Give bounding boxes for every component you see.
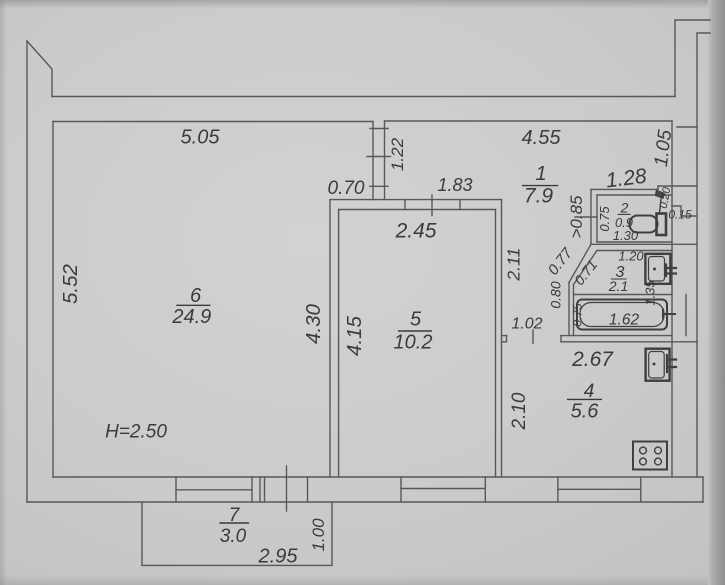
kitchen sink faucet — [667, 355, 676, 372]
window: kitchen mid line — [558, 488, 641, 490]
svg-text:0.70: 0.70 — [328, 178, 365, 199]
svg-text:1.28: 1.28 — [605, 165, 649, 193]
svg-text:4.55: 4.55 — [522, 127, 562, 149]
tick: kitchen door dimension — [532, 330, 534, 344]
wall: kitchen top outer left — [502, 335, 507, 337]
svg-text:7.9: 7.9 — [524, 185, 554, 208]
window: kitchen jamb right — [640, 477, 642, 502]
svg-text:0.75: 0.75 — [597, 206, 612, 232]
door: balcony jamb 3 — [307, 477, 309, 502]
svg-text:2.67: 2.67 — [571, 348, 614, 371]
svg-text:2: 2 — [620, 200, 629, 216]
wall: duct inner vertical — [671, 186, 673, 477]
wall: hallway-kitchen left — [501, 200, 503, 477]
window: kitchen jamb left — [557, 477, 559, 502]
wall: tub area top — [574, 294, 673, 296]
tick: room6 door jamb lower — [370, 185, 388, 187]
window: room6 mid line — [176, 489, 252, 491]
svg-text:0.15: 0.15 — [668, 208, 692, 222]
wall: room3 top outer — [591, 243, 697, 245]
window: room5 mid line — [401, 488, 485, 490]
toilet valve stem — [660, 199, 662, 213]
wall: bottom-right end vertical — [702, 477, 704, 502]
window: room6 right jamb — [251, 477, 253, 502]
bathtub outer — [577, 300, 667, 330]
tick: top-right duct — [677, 126, 697, 128]
wall: corridor right — [671, 121, 673, 186]
tick: room6 door middle — [367, 156, 391, 158]
svg-text:1.22: 1.22 — [388, 137, 407, 171]
toilet valve — [656, 191, 665, 199]
wall: wc left outer — [590, 189, 592, 244]
window: room5 jamb left — [400, 477, 402, 502]
wall: room3 top inner — [597, 250, 672, 252]
room1 bar — [522, 185, 558, 187]
svg-text:24.9: 24.9 — [171, 306, 211, 328]
tick: room5 door dimension — [431, 195, 433, 216]
wall: bottom inner line — [53, 476, 703, 478]
tick: wc dimension left — [575, 216, 597, 218]
room7 bar — [219, 522, 249, 524]
stove burner 3 — [640, 458, 647, 465]
svg-text:5.05: 5.05 — [181, 127, 221, 149]
kitchen sink outer — [646, 349, 670, 381]
svg-text:0.77: 0.77 — [545, 244, 577, 278]
wall: room5 right — [495, 210, 497, 478]
wall: corridor bottom y=199.6 — [330, 199, 502, 201]
toilet cistern — [657, 214, 667, 236]
stove — [633, 442, 667, 470]
dimension and room labels — [105, 127, 692, 568]
stove burner 2 — [655, 447, 662, 454]
sink room3 dot — [653, 268, 656, 271]
svg-text:2.95: 2.95 — [258, 546, 299, 568]
balcony: bottom edge — [142, 564, 332, 566]
sink room3 faucet — [666, 265, 676, 277]
svg-text:4.30: 4.30 — [302, 303, 325, 343]
wall: kitchen top inner right — [561, 341, 697, 343]
tick: balcony dimension — [286, 466, 288, 511]
svg-text:1.30: 1.30 — [613, 228, 639, 243]
wall: room6 right upper right line — [384, 121, 386, 200]
sink room3 inner — [649, 257, 665, 282]
svg-text:0.75: 0.75 — [571, 303, 585, 327]
svg-text:1.62: 1.62 — [609, 312, 640, 329]
wall: wc top inner — [597, 194, 672, 196]
wall: wc left inner — [596, 195, 598, 242]
balcony: left edge — [141, 502, 143, 565]
svg-text:1.83: 1.83 — [437, 175, 472, 195]
svg-text:>0.85: >0.85 — [567, 195, 586, 239]
window: room6 left jamb — [175, 477, 177, 502]
wall: room5 top inner — [339, 209, 496, 211]
svg-text:3.0: 3.0 — [220, 526, 247, 547]
wall: top outer — [52, 96, 675, 98]
wall: top inner line room6 — [53, 121, 373, 123]
wall: hallway right lower b — [573, 285, 575, 336]
kitchen sink dot — [653, 363, 656, 366]
svg-text:5: 5 — [410, 309, 422, 331]
wall: top inner line corridor — [385, 120, 673, 122]
bathtub faucet — [663, 310, 675, 319]
wall: bottom outer — [27, 501, 703, 503]
wc bar — [618, 213, 631, 215]
wall: wc bottom inner — [597, 241, 672, 243]
svg-text:2.1: 2.1 — [608, 278, 628, 294]
svg-text:1.35: 1.35 — [643, 280, 658, 306]
door: room5 jamb right — [459, 200, 461, 210]
room6 bar — [176, 304, 210, 306]
svg-text:2.11: 2.11 — [504, 248, 524, 282]
wall: step x658 — [657, 186, 659, 189]
rotated labels — [59, 128, 676, 551]
svg-text:5.6: 5.6 — [571, 401, 600, 423]
wall: kitchen top outer right — [561, 335, 672, 337]
svg-text:6: 6 — [190, 285, 202, 307]
wall: duct step y206 — [672, 206, 697, 216]
svg-text:4.15: 4.15 — [343, 315, 366, 355]
svg-text:0.20: 0.20 — [658, 186, 674, 210]
wall: kitchen top inner left — [502, 341, 507, 343]
stove burner 4 — [655, 458, 662, 465]
bathtub inner — [580, 303, 664, 327]
door: kitchen jamb left — [506, 336, 508, 342]
room5 bar — [398, 330, 432, 332]
balcony: right edge — [331, 502, 333, 565]
door: balcony jamb 2 — [264, 477, 266, 502]
wall: room6 left inner — [52, 122, 54, 478]
wall: corridor duct y186 — [658, 185, 697, 187]
svg-text:1: 1 — [535, 163, 546, 185]
window: room5 jamb right — [484, 477, 486, 502]
wall: diagonal outer — [569, 244, 591, 282]
svg-text:1.00: 1.00 — [309, 518, 328, 552]
kitchen sink inner — [649, 352, 665, 379]
sink room3 outer — [645, 254, 670, 284]
svg-text:1.20: 1.20 — [618, 249, 644, 264]
wall: room6 right lower — [329, 200, 331, 477]
wall: left outer — [26, 41, 28, 502]
svg-text:5.52: 5.52 — [59, 263, 82, 303]
room4 bar — [567, 398, 602, 400]
svg-text:0.71: 0.71 — [571, 257, 600, 288]
svg-text:2.45: 2.45 — [395, 220, 437, 243]
stove burner 1 — [640, 447, 647, 454]
wall: hallway right lower a — [568, 283, 570, 336]
wall: wc top outer — [591, 188, 658, 190]
wall: diagonal inner — [574, 251, 598, 285]
wall: room5 left — [338, 210, 340, 478]
wall: tub niche right — [685, 295, 687, 336]
svg-text:2.10: 2.10 — [509, 392, 530, 430]
door: balcony jamb 1 — [259, 477, 261, 502]
wall: top-left chamfer — [27, 41, 52, 97]
svg-text:H=2.50: H=2.50 — [105, 422, 167, 443]
svg-text:10.2: 10.2 — [394, 332, 433, 354]
wall: room6 right upper left line — [372, 122, 374, 200]
svg-text:0.80: 0.80 — [548, 281, 564, 308]
wall: top-right step — [675, 20, 710, 97]
room3 bar — [611, 278, 627, 280]
door: kitchen jamb right — [560, 336, 562, 342]
toilet bowl — [630, 216, 658, 233]
fixtures — [577, 191, 676, 470]
door: room5 jamb left — [404, 200, 406, 210]
svg-text:1.02: 1.02 — [511, 316, 542, 333]
wall: right outer top step — [697, 33, 710, 477]
tick: room6 door jamb upper — [370, 128, 388, 130]
